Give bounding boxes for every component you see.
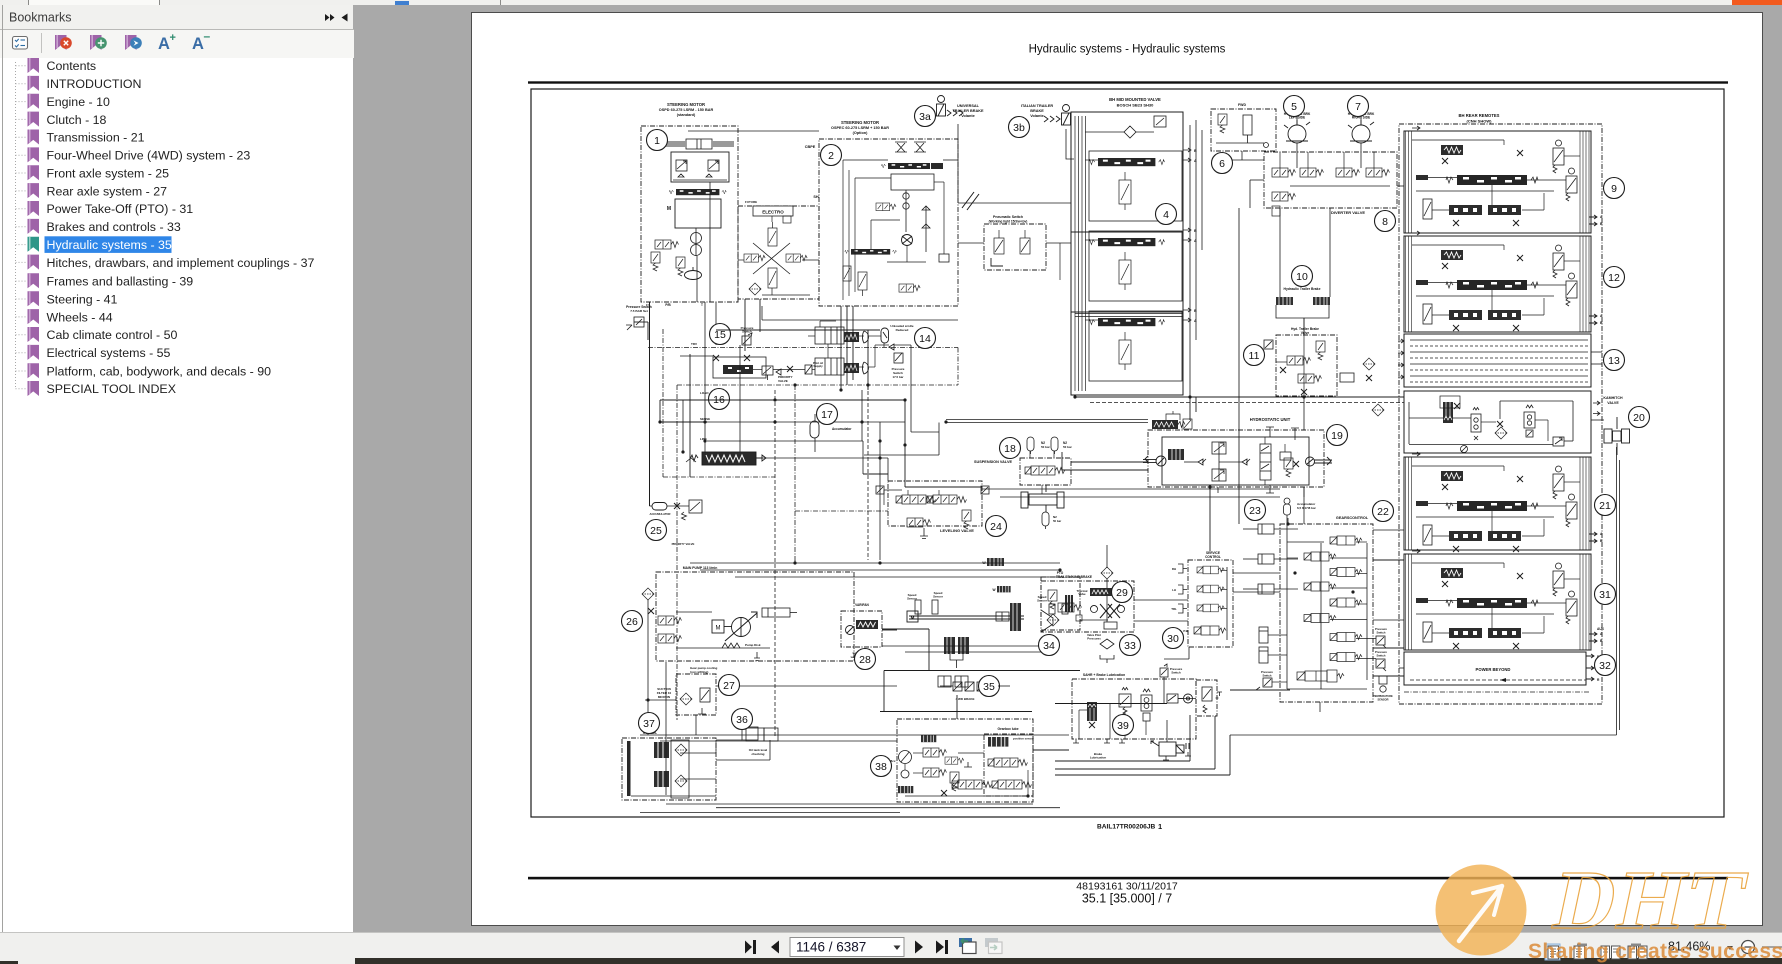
pump M motor bbox=[712, 620, 732, 633]
svg-text:Transmission - 21: Transmission - 21 bbox=[47, 131, 145, 145]
svg-text:INTRODUCTION: INTRODUCTION bbox=[47, 77, 142, 91]
pneu valve 1 bbox=[994, 230, 1004, 254]
svg-text:31: 31 bbox=[1599, 589, 1611, 601]
cross 29 A bbox=[1100, 604, 1112, 618]
svg-text:+: + bbox=[170, 32, 176, 44]
mid valve section 1 ports bbox=[1183, 148, 1191, 162]
wire 29 to brakes bbox=[1134, 599, 1188, 601]
svg-text:Sensor: Sensor bbox=[933, 595, 944, 599]
svg-text:4: 4 bbox=[1163, 209, 1169, 221]
mid valve section 3 ports bbox=[1183, 308, 1191, 322]
brake valve 1 bbox=[1197, 566, 1224, 574]
wire left drop 666 bbox=[665, 662, 667, 795]
oil block 36 bbox=[746, 728, 778, 741]
number circle 20 bbox=[1629, 407, 1650, 428]
gears pressure switch r1 bbox=[1376, 636, 1386, 648]
svg-text:Frames and ballasting - 39: Frames and ballasting - 39 bbox=[47, 275, 194, 289]
suspension valve box bbox=[1020, 458, 1071, 485]
wire gears to remotes 2 bbox=[1373, 559, 1404, 561]
valve 34 bbox=[1058, 603, 1082, 612]
electro wires bbox=[771, 216, 773, 222]
wires from box1 down bbox=[704, 302, 706, 452]
gear cylinder 2 bbox=[1243, 554, 1274, 564]
svg-text:7.5 BAR Set: 7.5 BAR Set bbox=[630, 309, 648, 313]
hydrostatic pump left bbox=[1143, 456, 1166, 466]
svg-text:DHT: DHT bbox=[1546, 854, 1757, 947]
box37 right stub bbox=[742, 727, 758, 740]
svg-text:PRIORITY VALVE: PRIORITY VALVE bbox=[672, 542, 695, 546]
square 29 small bbox=[1076, 615, 1082, 621]
remote section 21 bbox=[1404, 457, 1591, 550]
valve 38d bbox=[988, 758, 1028, 767]
leveling wires bbox=[884, 489, 902, 491]
susp wires bbox=[1029, 451, 1031, 458]
svg-text:TRL: TRL bbox=[1171, 607, 1177, 611]
steering motor standard box bbox=[641, 126, 738, 302]
top tab strip bbox=[0, 0, 1782, 6]
electro cross lines bbox=[753, 243, 790, 274]
brake valve 2 bbox=[1197, 585, 1224, 593]
wire bottom 795 bbox=[666, 803, 1033, 805]
junctions 2 bbox=[903, 398, 906, 401]
dash region corner bbox=[662, 329, 664, 477]
brake valve 4 bbox=[1194, 626, 1226, 635]
kamhitch cartridge B bbox=[1471, 408, 1481, 441]
electro valve right bbox=[786, 254, 807, 262]
bottom toolbar bbox=[0, 932, 1782, 959]
wire horiz 330 bbox=[716, 329, 880, 331]
svg-text:6,5 8 17/8 bar: 6,5 8 17/8 bar bbox=[1297, 506, 1317, 510]
check 15 bbox=[776, 369, 781, 375]
svg-text:P/B: P/B bbox=[665, 303, 671, 307]
svg-text:Lubrication: Lubrication bbox=[1090, 756, 1107, 760]
leveling z-port left bbox=[876, 486, 884, 494]
svg-text:50 bar: 50 bar bbox=[1053, 519, 1062, 523]
mid valve section 2 relief bbox=[1119, 252, 1131, 290]
hydrostatic charge wires bbox=[1166, 411, 1180, 420]
svg-text:Hydraulic systems - 35: Hydraulic systems - 35 bbox=[47, 238, 172, 252]
svg-text:TRAILER BRAKE: TRAILER BRAKE bbox=[952, 109, 983, 113]
filter 26 bbox=[642, 588, 654, 600]
svg-text:12: 12 bbox=[1608, 272, 1620, 284]
wire 37 right link bbox=[716, 759, 770, 761]
number circle 4 bbox=[1156, 204, 1177, 225]
gear small cylinder A bbox=[1259, 627, 1268, 643]
svg-text:SAHR + Brake Lubrication: SAHR + Brake Lubrication bbox=[1083, 673, 1125, 677]
valve 27 bbox=[700, 688, 710, 702]
svg-text:Reduced: Reduced bbox=[896, 328, 909, 332]
next view icon (disabled) bbox=[985, 938, 1002, 954]
svg-text:23: 23 bbox=[1249, 505, 1261, 517]
svg-text:Switch: Switch bbox=[1376, 654, 1385, 658]
twin valve link verticals bbox=[827, 344, 829, 358]
diverter lower valve bbox=[1272, 192, 1296, 201]
kamhitch rect A bbox=[1440, 396, 1460, 408]
number circle 29 bbox=[1112, 582, 1133, 603]
pto 35 squares bbox=[953, 682, 998, 691]
svg-text:M: M bbox=[911, 615, 915, 620]
wire pressure switch link bbox=[634, 321, 648, 323]
wire 39 right link bbox=[1178, 698, 1196, 700]
steering cylinder top bbox=[664, 139, 734, 149]
diverter valves row bbox=[1272, 168, 1296, 177]
svg-text:A: A bbox=[192, 35, 204, 53]
wire diverter right bbox=[1397, 185, 1404, 187]
wires 38 bbox=[904, 764, 906, 770]
electro valve left bbox=[744, 254, 765, 262]
gears valve 6 bbox=[1304, 614, 1336, 623]
svg-text:37: 37 bbox=[643, 718, 655, 730]
wire top long 1 bbox=[688, 130, 819, 132]
strainer 27 bbox=[698, 708, 706, 714]
hydrostatic relief top bbox=[1212, 442, 1226, 454]
gears valve 4 bbox=[1304, 582, 1336, 591]
hydrostatic charge valve bbox=[1152, 419, 1192, 429]
coil bracket bbox=[1276, 305, 1329, 335]
susp cylinders bbox=[1021, 485, 1064, 512]
wire vert 868 bbox=[867, 330, 869, 390]
svg-text:50 bar: 50 bar bbox=[1063, 445, 1073, 449]
wire electro drop 760 bbox=[759, 299, 761, 332]
svg-text:Clutch - 18: Clutch - 18 bbox=[47, 113, 107, 127]
wire 700 bbox=[645, 699, 676, 701]
priority valve spool bbox=[691, 452, 767, 465]
leveling z-port right bbox=[981, 486, 989, 494]
number circle 11 bbox=[1244, 345, 1265, 366]
shuttle circles box2 bbox=[903, 190, 909, 232]
wire hydro to gears bbox=[1303, 487, 1305, 524]
twin valve upper piston bbox=[815, 327, 844, 344]
svg-text:Hydraulic systems - Hydraulic: Hydraulic systems - Hydraulic systems bbox=[1029, 44, 1226, 56]
white page bbox=[471, 12, 1763, 926]
brake port tags bbox=[1178, 564, 1187, 613]
valve 38e bbox=[992, 780, 1032, 789]
sahr right sub box bbox=[1196, 680, 1217, 716]
wire gears to remotes bbox=[1373, 529, 1404, 531]
wire leveling to gears 2 bbox=[1000, 496, 1280, 498]
coupler under 7 bbox=[1348, 115, 1374, 143]
coil 38 top bbox=[921, 735, 936, 742]
number circle 3b bbox=[1009, 117, 1030, 138]
mid valve section 3 spool bbox=[1089, 318, 1164, 326]
kamhitch left wire bbox=[1409, 417, 1443, 419]
mid valve top unit bbox=[1085, 116, 1166, 138]
valve 38f bbox=[945, 757, 964, 764]
mid valve section 1 spool bbox=[1089, 158, 1164, 166]
number circle 10 bbox=[1292, 266, 1313, 287]
box6 cylinder bbox=[1243, 115, 1252, 143]
twin valve upper bell bbox=[863, 331, 869, 343]
svg-text:TRV: TRV bbox=[691, 342, 697, 346]
remote section 31 bbox=[1404, 554, 1591, 650]
svg-text:BRAKE: BRAKE bbox=[1030, 109, 1044, 113]
svg-text:1: 1 bbox=[654, 135, 660, 147]
wire 28 right bend bbox=[882, 628, 929, 630]
svg-text:B: B bbox=[1600, 321, 1603, 325]
wire 741 bbox=[660, 740, 897, 742]
svg-text:Rear axle system - 27: Rear axle system - 27 bbox=[47, 184, 168, 198]
kamhitch bottom filter bbox=[1461, 446, 1468, 453]
susp accumulator 2 bbox=[1051, 437, 1058, 454]
long dash mid vertical bbox=[867, 385, 869, 560]
svg-text:17.5 bar: 17.5 bar bbox=[893, 375, 905, 379]
dash-dot TRV right vert bbox=[957, 348, 959, 386]
number circle 1 bbox=[647, 130, 668, 151]
wire 27 down bbox=[695, 715, 697, 735]
svg-text:B: B bbox=[1194, 149, 1197, 153]
dash horiz 511 bbox=[795, 510, 888, 512]
svg-text:24: 24 bbox=[990, 521, 1002, 533]
gear cylinder 3 bbox=[1243, 584, 1274, 594]
wire box2 drops bbox=[840, 306, 842, 390]
dash-dot TRV line bbox=[648, 347, 958, 349]
box 29 bottom rect bbox=[1104, 622, 1117, 629]
cascade wires bottom right bbox=[1055, 760, 1190, 762]
svg-text:OSPEC 60-275 LSRM + 150 BAR: OSPEC 60-275 LSRM + 150 BAR bbox=[831, 126, 889, 130]
svg-text:Volante: Volante bbox=[961, 114, 974, 118]
svg-text:B: B bbox=[1194, 309, 1197, 313]
wire long mid 402 dash bbox=[1090, 402, 1404, 404]
check 14 bbox=[889, 344, 894, 350]
leveling valve 2 bbox=[927, 495, 967, 504]
svg-text:POWER BEYOND: POWER BEYOND bbox=[1476, 667, 1511, 672]
cluster15 wires bbox=[680, 355, 713, 357]
check row box2 bbox=[922, 206, 930, 252]
svg-text:DIVERTER VALVE: DIVERTER VALVE bbox=[1331, 210, 1365, 215]
gears bottom valve bbox=[1297, 670, 1344, 682]
wire 25 bbox=[667, 505, 689, 507]
wire box6 down bbox=[1241, 151, 1243, 160]
wire 34 to brakes bbox=[1080, 619, 1108, 621]
pump cluster box 26 bbox=[656, 572, 854, 661]
svg-text:26: 26 bbox=[626, 616, 638, 628]
number circle 6 bbox=[1212, 153, 1233, 174]
svg-text:Steering - 41: Steering - 41 bbox=[47, 292, 118, 306]
svg-text:Cab climate control - 50: Cab climate control - 50 bbox=[47, 328, 178, 342]
dash vert 775 bbox=[774, 390, 776, 737]
sahr brake box 39 bbox=[1072, 679, 1196, 739]
svg-text:HYDROSTATIC UNIT: HYDROSTATIC UNIT bbox=[1250, 417, 1291, 422]
steering wheel symbol box1 bbox=[685, 267, 702, 280]
pump 38 bbox=[899, 751, 912, 764]
box6 base bbox=[1216, 143, 1269, 148]
box6 relief bbox=[1218, 114, 1227, 133]
gears rungs bbox=[1274, 528, 1298, 530]
svg-text:AUX: AUX bbox=[1597, 627, 1605, 631]
gears temp sensor bbox=[1379, 676, 1387, 692]
gear cylinder 1 bbox=[1243, 524, 1274, 534]
gears valve 7 bbox=[1330, 633, 1362, 642]
valve low box2 bbox=[899, 284, 920, 292]
svg-text:VARIFAN: VARIFAN bbox=[855, 603, 869, 607]
wire load line long bbox=[660, 399, 905, 401]
mid valve bus horizontals bbox=[1075, 313, 1183, 315]
svg-text:SPECIAL TOOL INDEX: SPECIAL TOOL INDEX bbox=[47, 382, 176, 396]
wire vert 880 bbox=[879, 422, 881, 560]
wire 16 row bbox=[707, 421, 905, 423]
svg-text:position sensor: position sensor bbox=[1013, 737, 1035, 741]
bm delete icon bbox=[55, 35, 72, 50]
brakes bottom drop bbox=[1188, 647, 1190, 659]
svg-text:32: 32 bbox=[1599, 660, 1611, 672]
gerotor circle box2 bbox=[902, 235, 913, 246]
svg-text:Switch: Switch bbox=[1376, 631, 1385, 635]
pto forks bbox=[915, 600, 1068, 614]
last page btn bbox=[936, 940, 948, 954]
remote section 13 passthrough bbox=[1404, 334, 1591, 387]
spool top box2 bbox=[881, 163, 936, 169]
pressure switch 39 top bbox=[1160, 664, 1168, 677]
pto hatch column bbox=[1010, 603, 1021, 631]
pto gear mid bbox=[996, 612, 1009, 621]
svg-text:Wheels - 44: Wheels - 44 bbox=[47, 310, 113, 324]
gears valve 8 bbox=[1330, 653, 1362, 662]
svg-text:Pump Disk: Pump Disk bbox=[745, 643, 761, 647]
mid valve section 2 ports bbox=[1183, 228, 1191, 242]
wires box2 internal bbox=[842, 160, 844, 300]
pump spring bbox=[722, 643, 740, 648]
hydrostatic tall valve bbox=[1260, 444, 1271, 480]
svg-text:Pressures: Pressures bbox=[1087, 637, 1101, 641]
left relief box1 bbox=[651, 252, 660, 271]
svg-text:checking: checking bbox=[751, 752, 764, 756]
svg-text:1146 / 6387: 1146 / 6387 bbox=[796, 940, 866, 955]
svg-text:(Working light 15/3/w-tov): (Working light 15/3/w-tov) bbox=[989, 220, 1028, 224]
svg-text:M: M bbox=[716, 626, 721, 632]
svg-text:34: 34 bbox=[1043, 640, 1055, 652]
number circle 36 bbox=[732, 709, 753, 730]
inner box 38b bbox=[984, 734, 1033, 796]
leveling relief bbox=[962, 510, 971, 529]
wire diverter drops bbox=[1279, 208, 1281, 297]
mid valve sub rects bbox=[1089, 151, 1182, 221]
wire pto long 711 bbox=[880, 711, 1032, 713]
svg-text:RH: RH bbox=[1172, 567, 1176, 571]
inner rect 37 bbox=[671, 740, 689, 798]
spring 28 bbox=[856, 620, 878, 629]
svg-text:Sharing creates success: Sharing creates success bbox=[1528, 940, 1782, 963]
svg-text:Switch: Switch bbox=[1171, 671, 1181, 675]
motor 39 bbox=[1151, 741, 1189, 756]
wire vert 740 bbox=[739, 345, 741, 459]
valve 39 reducer bbox=[1141, 689, 1152, 721]
valve 38c bbox=[952, 780, 992, 789]
bar 37 bbox=[627, 741, 631, 796]
cartridge 37b bbox=[654, 771, 669, 787]
relief B box2 bbox=[858, 272, 867, 296]
pto W coils bbox=[987, 558, 1004, 566]
svg-text:(not refilling): (not refilling) bbox=[690, 670, 708, 674]
number circle 35 bbox=[979, 676, 1000, 697]
trailer brake valve box 11 bbox=[1276, 335, 1337, 396]
svg-text:Volante: Volante bbox=[1030, 114, 1043, 118]
svg-text:Electrical systems - 55: Electrical systems - 55 bbox=[47, 346, 171, 360]
kamhitch cartridge C bbox=[1524, 405, 1535, 437]
svg-text:B: B bbox=[1600, 639, 1603, 643]
steering valve body box1 bbox=[671, 152, 729, 182]
first page btn bbox=[745, 940, 756, 954]
number circle 26 bbox=[622, 611, 643, 632]
hydrostatic relief bottom bbox=[1212, 469, 1226, 481]
wire 26 internal h bbox=[676, 611, 712, 613]
wire top 320 bbox=[761, 306, 763, 320]
number circle 22 bbox=[1373, 501, 1394, 522]
hydrostatic T tops bbox=[1266, 427, 1299, 440]
gears pressure switch r2 bbox=[1376, 659, 1386, 671]
taskbar sliver bbox=[0, 958, 1782, 964]
svg-text:SENSOR: SENSOR bbox=[1378, 697, 1389, 701]
layout icons bbox=[1545, 944, 1647, 961]
kamhitch filter B bbox=[1495, 427, 1507, 439]
wire box2 to pneu bbox=[958, 242, 984, 244]
svg-text:(CNH SHOW): (CNH SHOW) bbox=[1467, 119, 1493, 124]
number circle 39 bbox=[1113, 715, 1134, 736]
brake valve 3 bbox=[1197, 604, 1224, 612]
mid mounted valve outer bbox=[1071, 112, 1183, 395]
hydrostatic check left bbox=[1198, 459, 1206, 465]
svg-text:CONTROL: CONTROL bbox=[1205, 555, 1221, 559]
wire susp vert bbox=[1061, 452, 1063, 470]
svg-text:Sensor: Sensor bbox=[907, 597, 918, 601]
svg-text:MAIN PUMP 113 l/min: MAIN PUMP 113 l/min bbox=[683, 566, 718, 570]
next page btn bbox=[915, 941, 923, 954]
wire coil drop bbox=[1303, 318, 1305, 335]
wire 17 drop bbox=[814, 414, 816, 421]
svg-text:B: B bbox=[1600, 222, 1603, 226]
vertical 690 bbox=[689, 354, 691, 477]
steering spool box1 bbox=[669, 189, 726, 195]
cartridge 29 left bbox=[1065, 595, 1073, 612]
dash vert 795 bbox=[794, 385, 796, 564]
pneu valve 2 bbox=[1020, 230, 1030, 254]
gears accumulator bbox=[1284, 498, 1291, 515]
coil left 10 bbox=[1276, 297, 1293, 305]
power beyond section 32 bbox=[1404, 652, 1586, 685]
leveling drain bbox=[920, 528, 928, 539]
wire pneu to mid valve bbox=[1046, 242, 1071, 244]
gears valve 2 bbox=[1304, 552, 1336, 561]
svg-text:MICRON: MICRON bbox=[658, 695, 670, 699]
x mark 15b bbox=[787, 366, 793, 372]
svg-text:Bookmarks: Bookmarks bbox=[9, 11, 72, 25]
svg-text:ACCUMULATOR: ACCUMULATOR bbox=[650, 512, 671, 516]
mid valve section 1 relief bbox=[1119, 172, 1131, 210]
bulb 29 right bbox=[1118, 606, 1125, 613]
wire pneu drop bbox=[1059, 243, 1061, 280]
wire bottom 816 bbox=[640, 812, 900, 814]
wire sec13 right bbox=[1591, 351, 1602, 353]
electro bottom valve bbox=[768, 268, 777, 288]
long vertical 1239 bbox=[1238, 208, 1240, 524]
svg-text:M: M bbox=[667, 206, 671, 212]
coil 38 bbox=[898, 786, 913, 793]
valve 15 x marks bbox=[713, 355, 719, 361]
accumulator 14 pill bbox=[881, 328, 889, 343]
tank 38 bbox=[964, 762, 972, 767]
wire gears top entry bbox=[1287, 518, 1289, 524]
svg-text:–: – bbox=[204, 29, 211, 43]
svg-text:35: 35 bbox=[983, 681, 995, 693]
svg-text:LEVELING VALVE: LEVELING VALVE bbox=[940, 528, 974, 533]
valve 39 pilot bbox=[1119, 688, 1131, 716]
number circle 21 bbox=[1595, 495, 1616, 516]
svg-text:1: 1 bbox=[1158, 822, 1162, 831]
svg-text:35.1 [35.000] / 7: 35.1 [35.000] / 7 bbox=[1082, 892, 1172, 906]
svg-text:2: 2 bbox=[828, 150, 834, 162]
relief A box2 bbox=[843, 266, 851, 281]
gears bus vertical A bbox=[1286, 515, 1288, 689]
svg-text:GEARSCONTROL: GEARSCONTROL bbox=[1336, 516, 1369, 520]
